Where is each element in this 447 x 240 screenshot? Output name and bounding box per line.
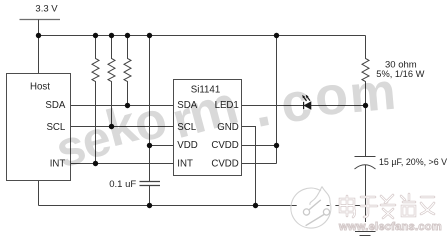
node CVDD top (274, 33, 279, 38)
svg-text:m: m (347, 63, 398, 125)
svg-text:www.elecfans.com: www.elecfans.com (338, 221, 442, 233)
ground symbol (355, 232, 376, 236)
wire CVDD pin 1 (242, 145, 277, 147)
node VDD (147, 143, 152, 148)
Si1141 block U1 (174, 80, 242, 176)
svg-text:CVDD: CVDD (211, 159, 238, 170)
LED D1 triangle and cathode bar (304, 102, 311, 109)
capacitor C1 0.1uF plates (140, 182, 161, 186)
node R3 top (125, 33, 130, 38)
wire VDD vertical drop (149, 36, 151, 182)
node GND bottom (253, 203, 258, 208)
wire CVDD vertical drop (276, 36, 278, 164)
svg-text:CVDD: CVDD (211, 140, 238, 151)
svg-text:Host: Host (30, 81, 50, 92)
resistor R2 pull-up (SCL) (108, 36, 115, 127)
svg-text:SDA: SDA (45, 100, 65, 111)
svg-text:3.3 V: 3.3 V (35, 4, 58, 15)
watermark sekorm.com (50, 63, 399, 179)
node SDA (125, 103, 130, 108)
power supply bar 3.3V (20, 19, 61, 21)
LED D1 emission arrows (302, 95, 310, 101)
watermark elecfans stamp logo (291, 187, 336, 231)
wire SDA Host to Si1141 (71, 105, 174, 107)
capacitor C2 15uF top lead and flat plate (355, 106, 376, 157)
wire INT Host to Si1141 (71, 163, 174, 165)
svg-text:0.1 uF: 0.1 uF (109, 179, 136, 190)
node LED anode (363, 103, 368, 108)
wire to ground (365, 206, 367, 223)
node 3.3V at rail (36, 33, 41, 38)
Host block U2 (7, 74, 71, 181)
svg-text:.: . (247, 73, 275, 140)
node VDD top (147, 33, 152, 38)
svg-text:15 µF, 20%, >6 V: 15 µF, 20%, >6 V (379, 157, 447, 167)
resistor R4 30 ohm (362, 36, 369, 106)
wire GND pin to bottom (242, 127, 256, 206)
wire LED1 line (242, 105, 366, 107)
wire top power rail (39, 35, 366, 37)
svg-text:INT: INT (177, 159, 193, 170)
resistor R1 pull-up (INT) (92, 36, 99, 164)
wire VDD to Si1141 (150, 145, 174, 147)
wire SCL Host to Si1141 (71, 126, 174, 128)
wire bottom return line (39, 205, 366, 207)
node R1 top (93, 33, 98, 38)
node R2 top (109, 33, 114, 38)
capacitor C2 curved plate (355, 165, 376, 169)
node INT (93, 161, 98, 166)
node SCL (109, 124, 114, 129)
wire CVDD pin 2 (242, 163, 277, 165)
wire C2 bottom lead (365, 165, 367, 206)
node CVDD (274, 143, 279, 148)
capacitor C1 bottom lead (149, 186, 151, 206)
svg-text:o: o (311, 64, 351, 128)
node junction dots (36, 33, 368, 208)
watermark elecfans chinese text (340, 194, 434, 218)
wire 3.3V feed to rail and Host (38, 20, 40, 74)
wire Host bottom to return line (38, 181, 40, 206)
svg-text:c: c (276, 71, 315, 135)
node C1 bottom (147, 203, 152, 208)
resistor R3 pull-up (SDA) (124, 36, 131, 106)
